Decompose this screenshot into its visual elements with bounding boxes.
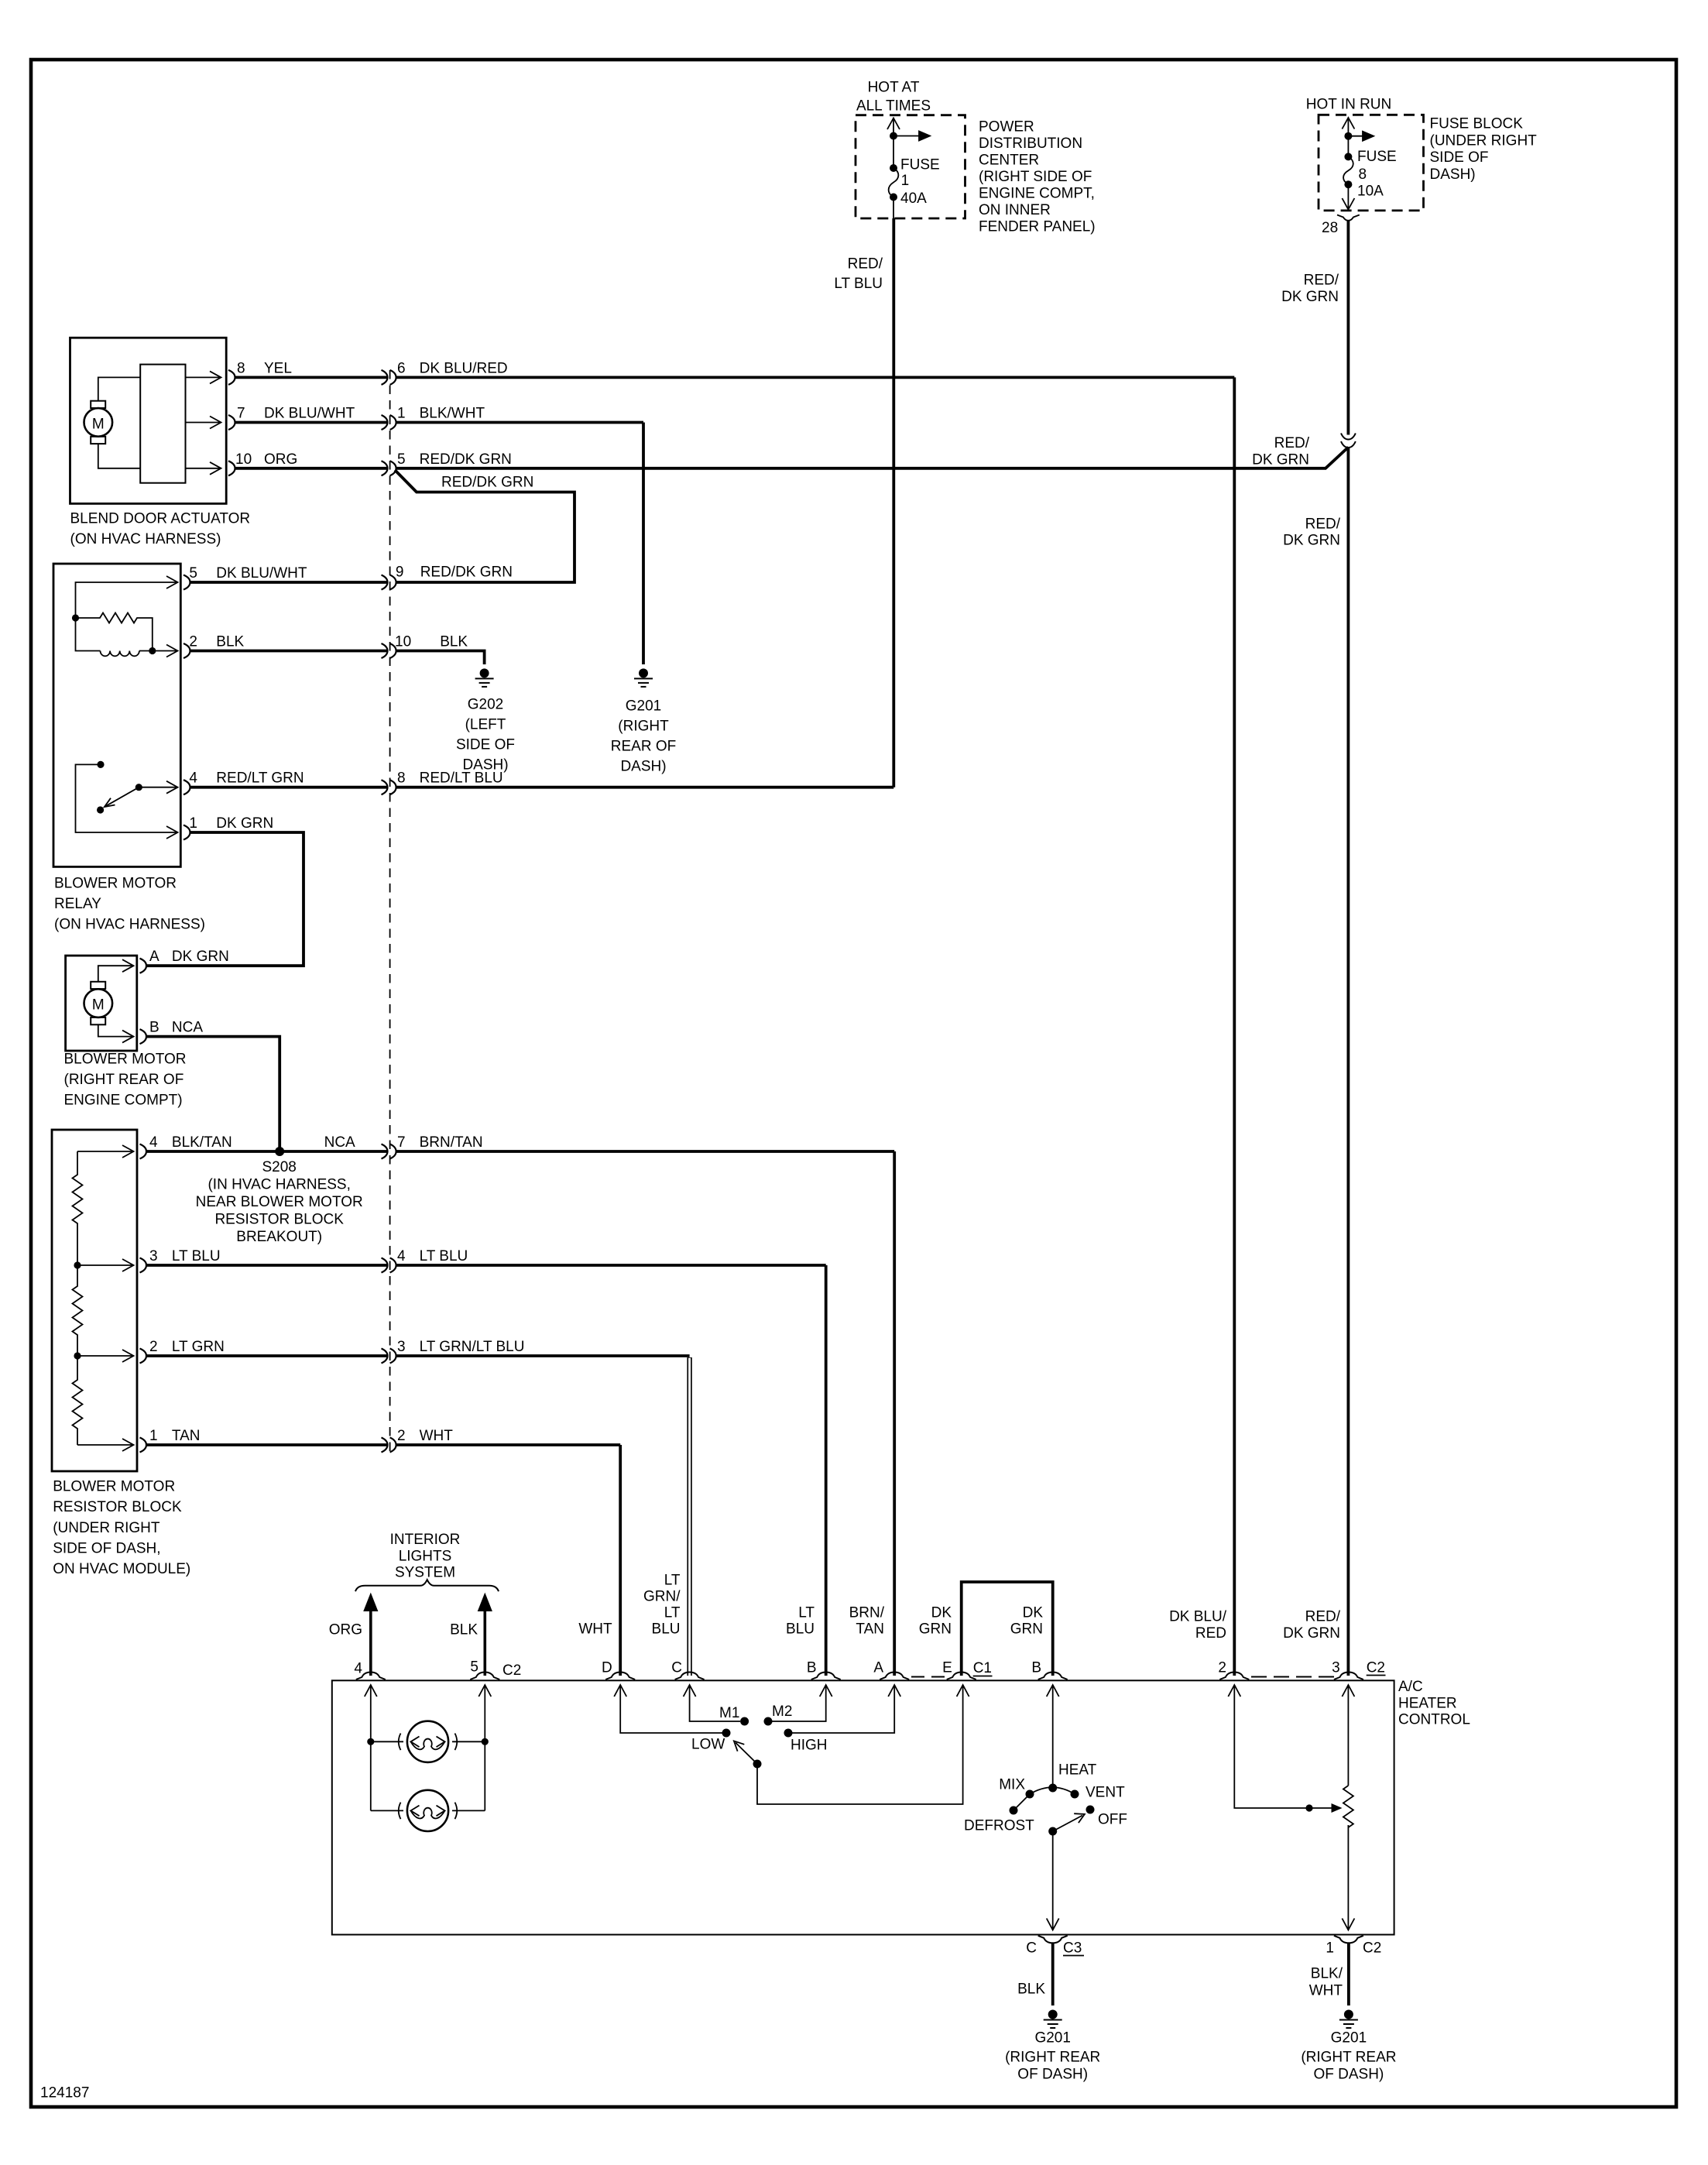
wire TAN pin 1 to connector	[146, 1443, 387, 1446]
svg-text:(RIGHT SIDE OF: (RIGHT SIDE OF	[979, 169, 1092, 185]
svg-text:GRN/: GRN/	[643, 1589, 681, 1605]
svg-text:SYSTEM: SYSTEM	[395, 1565, 455, 1581]
pin C internal arrow and wire to M1	[684, 1685, 740, 1721]
underline C3	[1063, 1955, 1084, 1957]
svg-text:CONTROL: CONTROL	[1398, 1712, 1470, 1728]
blend door actuator inner block	[140, 365, 185, 483]
illumination lamp 1	[371, 1721, 485, 1762]
svg-text:9: 9	[396, 564, 404, 581]
svg-text:ORG: ORG	[329, 1622, 362, 1638]
connector bump pin B C1	[1038, 1673, 1068, 1680]
relay pin 5 internal wire	[76, 576, 178, 618]
pin 2 internal arrow and wiper wire	[1228, 1685, 1333, 1808]
junction dot fuse block bus	[1344, 132, 1352, 140]
svg-text:VENT: VENT	[1086, 1785, 1125, 1801]
fuse F1 40A	[889, 136, 899, 219]
svg-text:FENDER PANEL): FENDER PANEL)	[979, 219, 1096, 235]
svg-text:7: 7	[397, 1134, 406, 1151]
svg-text:SIDE OF DASH,: SIDE OF DASH,	[53, 1541, 160, 1557]
svg-text:1: 1	[1326, 1940, 1334, 1957]
connector bump pin E	[947, 1673, 976, 1680]
relay resistor (parallel with coil)	[76, 613, 153, 651]
svg-text:G201: G201	[1034, 2030, 1070, 2047]
wire LT BLU row11 to pin B drop	[396, 1264, 826, 1267]
resistor block pin 1 internal wire	[77, 1439, 134, 1451]
svg-text:(IN HVAC HARNESS,: (IN HVAC HARNESS,	[207, 1177, 350, 1193]
potentiometer R4 temperature blend	[1343, 1786, 1353, 1827]
svg-text:10: 10	[235, 451, 252, 468]
pin labels 10 ORG	[235, 451, 297, 468]
svg-text:4: 4	[354, 1661, 362, 1677]
svg-text:28: 28	[1322, 220, 1338, 236]
svg-text:(UNDER RIGHT: (UNDER RIGHT	[1430, 133, 1538, 149]
svg-text:DK GRN: DK GRN	[172, 949, 229, 965]
splice S208 dot	[275, 1147, 284, 1156]
svg-text:DK BLU/WHT: DK BLU/WHT	[264, 406, 355, 422]
svg-text:1: 1	[149, 1428, 158, 1444]
svg-text:(UNDER RIGHT: (UNDER RIGHT	[53, 1520, 160, 1536]
connector C2 dashed boundary line	[389, 370, 391, 1453]
node B+ arrow up (hot at all times feed)	[887, 118, 900, 136]
wire BLK off-page arrow to interior lights	[478, 1593, 492, 1676]
svg-text:ENGINE COMPT): ENGINE COMPT)	[64, 1093, 183, 1109]
connector terminal resistor pin 2	[140, 1349, 147, 1364]
svg-text:C: C	[1026, 1940, 1037, 1957]
svg-text:BLK: BLK	[440, 634, 468, 650]
svg-text:E: E	[942, 1660, 952, 1676]
in-line connector row6	[382, 780, 396, 794]
connector bump pin 5	[470, 1673, 499, 1680]
dashed connector boundary A to E	[911, 1676, 951, 1678]
wire RED/DK GRN diagonal join to vertical	[1326, 448, 1348, 468]
svg-text:NEAR BLOWER MOTOR: NEAR BLOWER MOTOR	[196, 1194, 363, 1210]
svg-text:ORG: ORG	[264, 451, 297, 468]
pin labels A DK GRN	[149, 949, 229, 965]
svg-text:C2: C2	[1363, 1940, 1381, 1957]
wire BLK relay pin 2 to connector	[190, 650, 388, 653]
label BRN/TAN above pin A	[849, 1605, 885, 1638]
svg-text:3: 3	[397, 1339, 406, 1355]
fuse block dashed box	[1319, 115, 1424, 211]
svg-text:A: A	[149, 949, 159, 965]
svg-text:YEL: YEL	[264, 360, 292, 376]
svg-text:HEATER: HEATER	[1398, 1695, 1457, 1711]
wire LT BLU vertical drop to A/C heater control pin B	[825, 1265, 828, 1676]
pin labels 1 TAN	[149, 1428, 200, 1444]
svg-text:DK GRN: DK GRN	[1283, 533, 1340, 549]
wire ORG off-page arrow to interior lights	[363, 1593, 378, 1676]
relay switch pivot dot	[135, 784, 142, 791]
svg-text:ON INNER: ON INNER	[979, 202, 1051, 218]
pin labels 5 RED/DK GRN	[397, 451, 512, 468]
wire DK BLU/RED row1 to pin2 drop	[396, 376, 1235, 379]
ground G201 (right rear of dash) below pin C	[1044, 2010, 1062, 2029]
connector bump pin 1 bottom	[1334, 1936, 1363, 1944]
svg-text:GRN: GRN	[1010, 1621, 1043, 1638]
svg-text:8: 8	[1359, 166, 1367, 183]
blower motor box	[66, 956, 137, 1051]
svg-text:RED/: RED/	[848, 256, 883, 273]
relay coil winding	[76, 618, 153, 656]
pin labels 3 LT GRN/LT BLU	[397, 1339, 524, 1355]
svg-text:RED/: RED/	[1305, 516, 1341, 533]
svg-text:40A: 40A	[900, 190, 927, 207]
connector terminal relay pin 5	[183, 575, 190, 590]
svg-text:4: 4	[189, 770, 197, 787]
wire RED/DK GRN vertical to A/C heater control pin 3	[1347, 448, 1350, 1676]
label DK BLU/RED above pin 2	[1169, 1609, 1227, 1642]
svg-text:BLK/: BLK/	[1311, 1966, 1343, 1982]
wire RED/DK GRN row3 to diagonal	[396, 467, 1327, 470]
svg-text:(RIGHT REAR: (RIGHT REAR	[1005, 2050, 1100, 2066]
svg-text:2: 2	[1218, 1660, 1226, 1676]
label RED/LT BLU	[834, 256, 883, 293]
svg-text:OF DASH): OF DASH)	[1314, 2067, 1384, 2083]
mode switch MIX dot	[1026, 1790, 1034, 1799]
pin labels 1 BLK/WHT	[397, 406, 485, 422]
svg-text:10A: 10A	[1357, 184, 1384, 200]
svg-text:4: 4	[397, 1248, 406, 1264]
blower switch LOW contact dot	[722, 1729, 731, 1738]
wire LT GRN/LT BLU vertical drop (hollow double line) to pin C	[687, 1357, 691, 1676]
wire BLK/TAN pin 4 to connector (NCA)	[146, 1150, 387, 1153]
connector cavity 28 at fuse block	[1337, 215, 1360, 221]
pin labels 8 RED/LT BLU	[397, 770, 503, 787]
label RED/DK GRN at diagonal	[1252, 435, 1310, 468]
svg-text:8: 8	[397, 770, 406, 787]
connector terminal relay pin 4	[183, 780, 190, 794]
pin B C1 internal arrow and wire to HEAT	[1047, 1685, 1059, 1788]
svg-text:A: A	[873, 1660, 883, 1676]
relay switch common wire to pin 1	[76, 764, 178, 839]
svg-text:G201: G201	[626, 698, 661, 715]
wire RED/LT BLU row6 to PDC vertical	[396, 786, 894, 789]
connector terminal relay pin 2	[183, 643, 190, 658]
svg-text:LT BLU: LT BLU	[834, 276, 883, 292]
in-line connector row2	[382, 415, 396, 430]
dashed connector boundary 2 to 3	[1251, 1676, 1335, 1678]
wire RED/DK GRN branch diagonal from connector	[395, 470, 574, 582]
svg-text:RED/DK GRN: RED/DK GRN	[420, 564, 513, 581]
svg-text:GRN: GRN	[919, 1621, 952, 1638]
svg-text:DEFROST: DEFROST	[964, 1818, 1034, 1834]
in-line connector row12	[382, 1349, 396, 1364]
fuse block location note	[1430, 116, 1538, 184]
wire mode switch pivot to pin C bottom	[1047, 1831, 1059, 1930]
connector bump pin C	[675, 1673, 705, 1680]
blower switch M2 contact dot	[764, 1717, 773, 1726]
connector terminal pin 8	[228, 370, 235, 385]
pin labels 3 LT BLU	[149, 1248, 221, 1264]
ground G202 symbol	[475, 668, 494, 687]
svg-text:(ON HVAC HARNESS): (ON HVAC HARNESS)	[54, 917, 205, 933]
connector bump pin 4	[356, 1673, 386, 1680]
motor M2 blower	[84, 982, 113, 1025]
blower switch pivot dot	[753, 1760, 762, 1769]
svg-text:LT BLU: LT BLU	[172, 1248, 221, 1264]
blower switch M1 contact dot	[740, 1717, 749, 1726]
blend door pin 8 internal wire	[186, 371, 221, 383]
svg-text:FUSE: FUSE	[900, 157, 940, 173]
mode switch contact arc MIX HEAT VENT	[1030, 1787, 1075, 1794]
illumination lamp 2	[371, 1790, 485, 1831]
in-line connector row4	[382, 575, 396, 590]
relay coil junction dot left	[72, 614, 79, 621]
svg-text:BLU: BLU	[652, 1621, 681, 1638]
pin 4 internal arrow and lamp rail left	[365, 1685, 377, 1810]
svg-text:DISTRIBUTION: DISTRIBUTION	[979, 136, 1082, 152]
resistor block pin 4 internal wire	[77, 1145, 134, 1158]
pin labels 1 DK GRN	[189, 815, 273, 832]
junction dot PDC bus	[890, 132, 897, 140]
svg-text:D: D	[602, 1660, 612, 1676]
wire BLK row5 to ground G202	[396, 651, 485, 665]
svg-text:LOW: LOW	[691, 1737, 725, 1753]
svg-text:BRN/: BRN/	[849, 1605, 885, 1621]
arrow up hot in run feed	[1342, 118, 1354, 137]
resistor block name label	[53, 1479, 190, 1578]
svg-text:G201: G201	[1331, 2030, 1367, 2047]
wiper junction dot	[1305, 1804, 1312, 1811]
wire M2 to pin B	[772, 1685, 832, 1721]
svg-text:5: 5	[189, 565, 197, 582]
in-line connector row11	[382, 1258, 396, 1273]
svg-text:2: 2	[189, 634, 197, 650]
component name label	[70, 511, 251, 548]
wire DK BLU/WHT relay pin 5 to connector	[190, 581, 388, 584]
wire DK BLU/RED vertical drop to A/C heater control pin 2	[1233, 377, 1236, 1676]
wire BLK/WHT pin 1 to ground	[1347, 1943, 1350, 2005]
svg-text:B: B	[1031, 1660, 1041, 1676]
svg-text:7: 7	[237, 406, 245, 422]
PDC location note	[979, 119, 1096, 235]
svg-text:DK GRN: DK GRN	[1283, 1625, 1340, 1642]
blend door actuator box	[70, 338, 227, 503]
svg-text:DK: DK	[931, 1605, 952, 1621]
power distribution center PDC dashed box	[856, 115, 965, 218]
svg-text:(ON HVAC HARNESS): (ON HVAC HARNESS)	[70, 531, 221, 547]
svg-text:SIDE OF: SIDE OF	[1430, 149, 1489, 166]
ground G201 label	[611, 698, 676, 775]
splice S208 label	[196, 1159, 363, 1245]
connector terminal resistor pin 4	[140, 1144, 147, 1159]
svg-text:HEAT: HEAT	[1058, 1762, 1097, 1779]
in-line connector on RED/DK GRN vertical wire	[1341, 434, 1356, 448]
brace to interior lights system	[355, 1580, 499, 1591]
svg-text:WHT: WHT	[420, 1428, 454, 1444]
svg-text:RED/: RED/	[1305, 1609, 1341, 1625]
svg-text:DK GRN: DK GRN	[1252, 452, 1309, 468]
connector bump pin 3	[1334, 1673, 1363, 1680]
relay switch fixed contact	[97, 761, 104, 768]
blower motor pin B internal wire	[98, 1024, 134, 1042]
junction dot lamp1 right	[482, 1738, 489, 1745]
underline C1	[973, 1676, 993, 1677]
relay pin 2 internal wire	[153, 645, 178, 657]
label DK GRN above pin B C1	[1010, 1605, 1044, 1638]
svg-text:C2: C2	[1367, 1660, 1385, 1676]
junction dot pin 2 tap	[74, 1352, 81, 1359]
pin label 5 C2	[470, 1659, 521, 1680]
label RED/DK GRN lower	[1283, 516, 1341, 549]
wire BLK/WHT row2 to ground drop	[396, 421, 644, 424]
svg-text:BLEND DOOR ACTUATOR: BLEND DOOR ACTUATOR	[70, 511, 251, 527]
svg-text:2: 2	[397, 1428, 406, 1444]
svg-text:DK GRN: DK GRN	[1281, 289, 1339, 305]
svg-text:BRN/TAN: BRN/TAN	[420, 1134, 483, 1151]
pin labels 2 WHT	[397, 1428, 453, 1444]
fuse F8 10A	[1342, 136, 1354, 210]
svg-text:RESISTOR BLOCK: RESISTOR BLOCK	[53, 1499, 182, 1515]
svg-text:(RIGHT REAR OF: (RIGHT REAR OF	[64, 1072, 184, 1088]
svg-text:POWER: POWER	[979, 119, 1034, 136]
relay coil junction dot right	[149, 647, 156, 654]
svg-text:(RIGHT: (RIGHT	[618, 719, 669, 735]
mode switch VENT dot	[1071, 1790, 1079, 1799]
blower motor relay box	[53, 564, 180, 866]
svg-text:RED: RED	[1195, 1625, 1226, 1642]
svg-text:OF DASH): OF DASH)	[1017, 2067, 1088, 2083]
wire WHT vertical drop to A/C heater control pin D	[619, 1445, 622, 1676]
svg-text:C3: C3	[1063, 1940, 1082, 1957]
pin labels 7 DK BLU/WHT	[237, 406, 355, 422]
svg-text:WHT: WHT	[1309, 1983, 1343, 1999]
ground G201 (right rear of dash) below pin 1	[1339, 2010, 1358, 2029]
A/C heater control box	[332, 1680, 1394, 1934]
ground G202 label	[456, 697, 515, 774]
svg-text:LT GRN/LT BLU: LT GRN/LT BLU	[420, 1339, 525, 1355]
svg-text:BLU: BLU	[786, 1621, 815, 1638]
svg-text:1: 1	[189, 815, 197, 832]
blower motor pin A internal wire	[98, 959, 134, 982]
wire LT BLU pin 3 to connector	[146, 1264, 387, 1267]
wire blower switch pivot to pin E	[757, 1685, 969, 1804]
svg-text:BLOWER MOTOR: BLOWER MOTOR	[64, 1052, 187, 1068]
mode switch arm	[1053, 1813, 1085, 1831]
svg-text:NCA: NCA	[172, 1020, 203, 1036]
pin labels 10 BLK	[395, 634, 468, 650]
svg-text:DASH): DASH)	[620, 759, 666, 775]
connector terminal resistor pin 1	[140, 1438, 147, 1453]
svg-text:BLK: BLK	[450, 1622, 478, 1638]
svg-text:BLK/WHT: BLK/WHT	[420, 406, 485, 422]
connector bump pin B	[811, 1673, 841, 1680]
wire HIGH to pin A	[792, 1685, 900, 1733]
wire DEFROST to MIX	[1013, 1794, 1030, 1810]
svg-text:HOT AT: HOT AT	[868, 80, 920, 96]
blower switch HIGH contact dot	[784, 1729, 793, 1738]
svg-text:1: 1	[901, 173, 910, 189]
svg-text:2: 2	[149, 1339, 158, 1355]
svg-text:RELAY: RELAY	[54, 896, 101, 912]
svg-text:RED/: RED/	[1304, 273, 1339, 289]
pin label C C3	[1026, 1940, 1082, 1957]
svg-text:DASH): DASH)	[1430, 166, 1476, 183]
wire DK BLU/WHT pin 7 to connector	[235, 421, 388, 424]
blend door pin 7 internal wire	[186, 417, 221, 429]
svg-text:LIGHTS: LIGHTS	[399, 1548, 452, 1564]
wire RED/DK GRN from fuse 8 down to in-line connector	[1347, 221, 1350, 435]
svg-text:WHT: WHT	[578, 1621, 612, 1638]
svg-text:DASH): DASH)	[462, 757, 508, 774]
in-line connector row1	[382, 370, 396, 385]
pin label 1 C2	[1326, 1940, 1381, 1957]
svg-text:OFF: OFF	[1098, 1812, 1127, 1828]
relay switch movable arm	[105, 787, 139, 807]
pin labels 7 BRN/TAN	[397, 1134, 483, 1151]
svg-text:LT: LT	[664, 1605, 681, 1621]
svg-text:M: M	[92, 417, 105, 433]
svg-text:BLOWER MOTOR: BLOWER MOTOR	[54, 876, 177, 892]
blend door pin 10 internal wire	[186, 462, 221, 475]
pin label E C1	[942, 1660, 992, 1677]
svg-text:(LEFT: (LEFT	[465, 717, 506, 733]
pin labels 2 BLK	[189, 634, 244, 650]
underline C2	[1367, 1675, 1386, 1676]
junction dot lamp1 left	[367, 1738, 374, 1745]
blower motor name label	[64, 1052, 187, 1109]
label BLK/WHT	[1309, 1966, 1343, 1999]
pin labels B NCA	[149, 1020, 203, 1036]
svg-text:FUSE BLOCK: FUSE BLOCK	[1430, 116, 1524, 132]
label LT GRN/LT BLU above pin C	[643, 1573, 681, 1638]
bus arrow right (to other circuits)	[1348, 132, 1374, 141]
ground G201 label left	[1005, 2030, 1100, 2083]
wiper arrow into resistor	[1332, 1803, 1343, 1813]
relay name label	[54, 876, 205, 933]
svg-text:BLK/TAN: BLK/TAN	[172, 1134, 232, 1151]
svg-text:M2: M2	[772, 1704, 792, 1720]
blower motor resistor block box	[52, 1130, 137, 1471]
wire DK GRN jumper pin E to pin B C1	[962, 1582, 1053, 1676]
pin labels 4 RED/LT GRN	[189, 770, 304, 787]
blower switch arm	[734, 1741, 757, 1764]
interior lights system label	[390, 1532, 461, 1581]
pin 3 internal arrow	[1342, 1685, 1354, 1786]
label DK GRN above pin E	[919, 1605, 952, 1638]
svg-text:B: B	[807, 1660, 817, 1676]
connector terminal blower pin A	[140, 959, 147, 973]
in-line connector row3	[382, 461, 396, 475]
pin 5 internal arrow and lamp rail right	[478, 1685, 491, 1810]
svg-text:DK GRN: DK GRN	[216, 815, 273, 832]
svg-text:DK: DK	[1023, 1605, 1044, 1621]
A/C heater control name label	[1398, 1679, 1470, 1728]
fuse 1 value label	[900, 157, 940, 208]
relay pin 4 internal wire	[139, 781, 177, 794]
svg-text:LT: LT	[798, 1605, 815, 1621]
svg-text:RED/: RED/	[1274, 435, 1310, 451]
label HOT AT ALL TIMES	[856, 80, 931, 115]
bus arrow right (to other circuits)	[893, 132, 930, 141]
pin labels 4 LT BLU	[397, 1248, 468, 1264]
svg-text:ENGINE COMPT,: ENGINE COMPT,	[979, 186, 1095, 202]
label RED/DK GRN upper	[1281, 273, 1339, 306]
label RED/DK GRN above pin 3	[1283, 1609, 1341, 1642]
svg-text:INTERIOR: INTERIOR	[390, 1532, 461, 1548]
mode switch HEAT dot	[1048, 1784, 1057, 1793]
svg-text:LT: LT	[664, 1573, 681, 1589]
resistor R1	[73, 1151, 83, 1265]
svg-text:5: 5	[470, 1659, 478, 1676]
svg-text:BREAKOUT): BREAKOUT)	[236, 1229, 322, 1245]
svg-text:10: 10	[395, 634, 411, 650]
svg-text:1: 1	[397, 406, 406, 422]
connector terminal pin 10	[228, 461, 235, 475]
connector bump pin C bottom	[1038, 1936, 1068, 1944]
connector terminal blower pin B	[140, 1029, 147, 1044]
svg-text:FUSE: FUSE	[1357, 149, 1397, 165]
